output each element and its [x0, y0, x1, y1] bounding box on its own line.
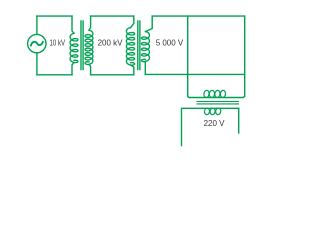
inductor T3 bottom winding rings: [204, 108, 221, 115]
inductor T1 secondary coil: [85, 30, 93, 64]
wire loop2 right upper: [131, 16, 134, 28]
wire loop3 bottom (transmission line bottom): [145, 73, 244, 75]
transformer T2 core: [137, 21, 139, 70]
AC source G1: [28, 34, 46, 52]
wire loop1 left lower: [36, 53, 38, 75]
wire loop1 left upper: [36, 16, 38, 34]
wire T3 bottom lead line left: [182, 108, 239, 145]
svg-text:200 kV: 200 kV: [98, 39, 124, 48]
wire loop3 top (transmission line top): [152, 15, 245, 17]
wire loop3 left upper: [146, 16, 153, 31]
svg-text:220 V: 220 V: [204, 119, 226, 128]
wire loop1 right upper: [72, 16, 74, 33]
wire loop2 bottom: [91, 74, 134, 76]
wire loop2 left upper: [89, 16, 91, 30]
wire T3 bottom right stub: [238, 108, 240, 133]
transformer T3 core: [197, 101, 239, 103]
wire loop3 left lower: [144, 62, 146, 75]
inductor T3 top winding rings: [203, 90, 225, 98]
wire loop1 bottom: [37, 74, 72, 76]
svg-text:5 000 V: 5 000 V: [156, 39, 184, 48]
inductor T2 secondary coil: [142, 32, 150, 62]
inductor T2 primary coil: [126, 28, 134, 66]
AC source tilde: [31, 42, 43, 46]
wire loop1 right lower: [72, 63, 74, 75]
wire loop2 left lower: [89, 64, 91, 75]
transformer T1 core: [80, 21, 82, 70]
wire loop2 top: [91, 15, 134, 17]
wire drop to T3 left + top winding lead line: [188, 16, 245, 97]
wire loop3 right: [244, 16, 246, 96]
inductor T1 primary coil: [70, 33, 78, 62]
wire loop2 right lower: [131, 65, 134, 75]
svg-text:10 kV: 10 kV: [50, 39, 66, 48]
wire loop1 top: [37, 15, 72, 17]
